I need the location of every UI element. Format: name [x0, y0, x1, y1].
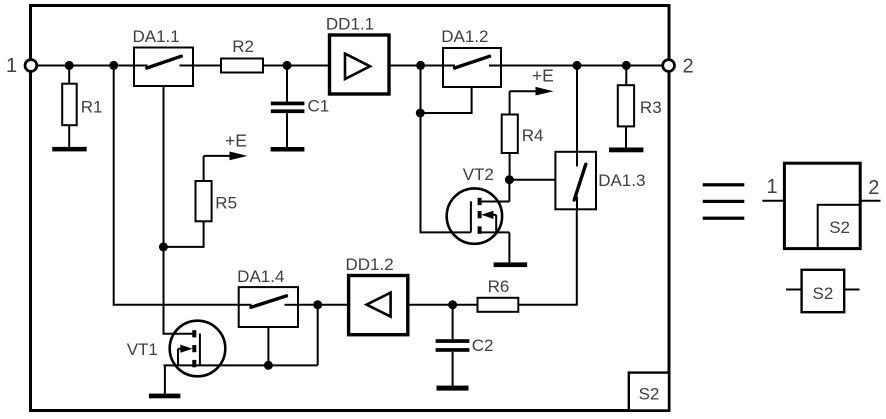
wire: R4 node to DA1.3 left	[509, 179, 555, 181]
supply +E (R5)	[204, 152, 248, 182]
wire: R5 tap	[163, 221, 203, 247]
main device outline box	[31, 6, 670, 411]
svg-text:DA1.2: DA1.2	[441, 27, 488, 46]
resistor R3	[618, 65, 634, 147]
resistor R1	[62, 65, 76, 146]
ground (R3)	[609, 148, 643, 153]
svg-text:DD1.1: DD1.1	[326, 15, 374, 34]
transistor VT1	[170, 321, 226, 377]
wire: DA1.3 top to main net	[576, 65, 578, 151]
switch DA1.3	[555, 152, 596, 210]
junction R3 tap	[622, 61, 631, 70]
junction DA1.4 output node	[313, 300, 322, 309]
resistor R5	[196, 181, 212, 221]
junction DA1.4 control node	[264, 361, 273, 370]
svg-text:DA1.4: DA1.4	[237, 267, 284, 286]
junction R4 / VT2 drain node	[505, 175, 514, 184]
resistor R6	[478, 298, 519, 312]
svg-text:R6: R6	[488, 277, 510, 296]
wire: DA1.1 output down to VT1 drain	[164, 86, 193, 334]
wire: terminal 1 to DA1.1 pin	[31, 65, 134, 67]
wire: DD1.2 to R6	[408, 304, 478, 306]
supply +E (R4)	[510, 87, 554, 115]
terminal 2	[663, 60, 675, 72]
junction DA1.2 control node	[416, 109, 425, 118]
svg-text:R5: R5	[215, 193, 237, 212]
capacitor C2	[436, 305, 470, 386]
ground (R1)	[52, 147, 86, 152]
junction R1 tap	[65, 61, 74, 70]
svg-text:S2: S2	[829, 218, 850, 237]
ground (VT1)	[149, 365, 181, 398]
junction R5 / DA1.1 output node	[159, 242, 168, 251]
buffer DD1.2	[349, 276, 408, 335]
switch DA1.2	[443, 48, 501, 87]
svg-text:C2: C2	[472, 336, 494, 355]
svg-text:VT2: VT2	[463, 165, 494, 184]
wire: VT1 source/gate row	[164, 364, 318, 366]
ground (VT2)	[494, 262, 528, 267]
standalone S2 box	[786, 270, 860, 312]
svg-text:R1: R1	[81, 97, 103, 116]
svg-text:S2: S2	[813, 284, 834, 303]
capacitor C1	[271, 66, 305, 148]
wire: up to DA1.4 output node	[317, 305, 319, 366]
wire: node to VT2 gate	[421, 65, 471, 232]
wire: DA1.2 control pin	[421, 87, 472, 113]
wire: DA1.1 to R2	[193, 65, 221, 67]
wire: R6 to DA1.3 bottom	[518, 209, 577, 304]
junction C2 / R6 node	[448, 300, 457, 309]
junction DA1.4 feed tap	[109, 61, 118, 70]
junction VT2 gate feed tap	[416, 61, 425, 70]
svg-text:DA1.3: DA1.3	[598, 171, 645, 190]
svg-text:R2: R2	[232, 37, 254, 56]
equivalent block S2	[762, 163, 880, 248]
buffer DD1.1	[330, 35, 390, 94]
svg-text:1: 1	[766, 176, 777, 198]
transistor VT2	[447, 180, 510, 263]
equivalence bars	[703, 183, 745, 220]
svg-text:S2: S2	[639, 385, 660, 404]
svg-text:+E: +E	[532, 66, 554, 86]
ground (C2)	[437, 386, 469, 391]
terminal 1	[25, 60, 37, 72]
S2 corner box	[629, 373, 669, 411]
ground (C1)	[271, 147, 305, 152]
svg-text:VT1: VT1	[127, 340, 158, 359]
junction C1 tap	[283, 61, 292, 70]
wire: node1 down to DA1.4 left	[114, 65, 239, 304]
svg-text:R3: R3	[640, 98, 662, 117]
svg-text:C1: C1	[308, 97, 330, 116]
resistor R4	[502, 115, 518, 180]
svg-text:DA1.1: DA1.1	[132, 27, 179, 46]
svg-text:DD1.2: DD1.2	[346, 255, 394, 274]
wire: DA1.4 to DD1.2	[298, 304, 349, 306]
svg-text:2: 2	[682, 55, 693, 77]
switch DA1.4	[239, 287, 298, 327]
wire: R2 to DD1.1	[263, 65, 330, 67]
svg-text:2: 2	[868, 177, 879, 199]
svg-text:R4: R4	[522, 126, 544, 145]
wire: DA1.2 to terminal 2	[501, 65, 666, 67]
svg-text:+E: +E	[225, 130, 247, 150]
resistor R2	[221, 59, 263, 73]
junction DA1.3 top tap	[573, 61, 582, 70]
switch DA1.1	[134, 48, 193, 87]
wire: DD1.1 to DA1.2	[389, 65, 443, 67]
svg-text:1: 1	[6, 55, 17, 77]
wire: DA1.4 control pin	[267, 327, 269, 365]
